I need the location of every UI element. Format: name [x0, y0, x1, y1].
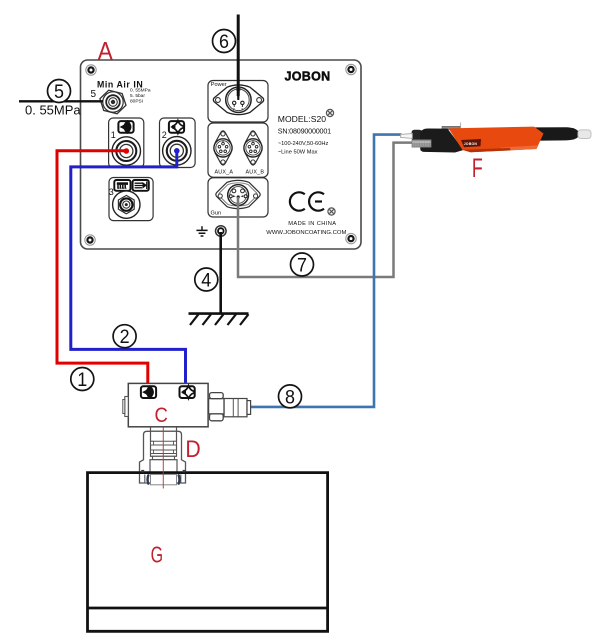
svg-text:3: 3: [241, 108, 243, 112]
svg-text:JOBON: JOBON: [285, 70, 331, 84]
svg-text:Power: Power: [211, 82, 227, 88]
svg-text:5. 5bar: 5. 5bar: [130, 93, 145, 99]
svg-text:4: 4: [201, 269, 211, 291]
svg-text:5: 5: [91, 89, 97, 100]
svg-text:G: G: [151, 543, 163, 569]
svg-text:A: A: [98, 37, 113, 65]
svg-text:1: 1: [77, 368, 87, 390]
svg-text:7: 7: [297, 254, 307, 276]
svg-text:~Line 50W Max: ~Line 50W Max: [278, 150, 318, 156]
svg-text:C: C: [155, 404, 168, 428]
svg-text:0. 55MPa: 0. 55MPa: [130, 88, 151, 94]
svg-text:80PSI: 80PSI: [130, 98, 143, 104]
svg-text:5: 5: [54, 80, 64, 102]
svg-text:8: 8: [285, 386, 295, 408]
svg-text:2: 2: [120, 326, 130, 348]
svg-text:3: 3: [109, 187, 114, 197]
svg-text:SN:08090000001: SN:08090000001: [278, 126, 331, 135]
svg-text:2: 2: [162, 130, 167, 140]
svg-text:6: 6: [219, 30, 229, 52]
svg-text:2: 2: [233, 108, 235, 112]
svg-text:AUX_B: AUX_B: [246, 170, 265, 176]
svg-text:F: F: [472, 152, 483, 183]
svg-text:D: D: [185, 436, 200, 462]
svg-text:WWW.JOBONCOATING.COM: WWW.JOBONCOATING.COM: [266, 230, 346, 236]
svg-text:MADE IN CHINA: MADE IN CHINA: [288, 221, 336, 227]
svg-text:AUX_A: AUX_A: [215, 170, 234, 176]
svg-text:JOBON: JOBON: [464, 142, 478, 146]
svg-text:~100-240V,50-60Hz: ~100-240V,50-60Hz: [278, 141, 329, 147]
svg-text:1: 1: [111, 130, 116, 140]
svg-text:Gun: Gun: [211, 211, 222, 217]
svg-text:0. 55MPa: 0. 55MPa: [25, 103, 81, 118]
svg-text:MODEL:S20: MODEL:S20: [278, 114, 326, 124]
